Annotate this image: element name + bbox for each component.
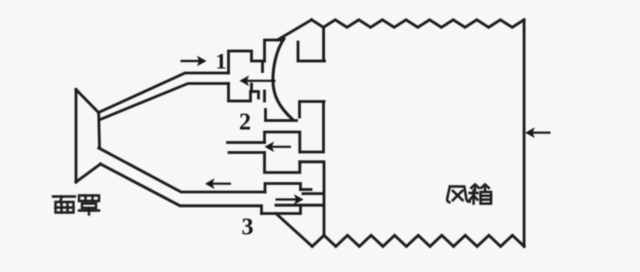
bellows zigzag bottom (312, 235, 524, 246)
fresh gas side pipe (228, 141, 265, 144)
diaphragm arc (273, 39, 292, 119)
bellows zigzag top (312, 20, 524, 28)
valve V3 body (265, 184, 301, 193)
arrow left above lower tube (205, 178, 231, 189)
arrow left inside valve 2 (265, 142, 292, 153)
wire lower tube bottom edge (101, 164, 262, 214)
channel to bellows (300, 162, 324, 236)
bellows top port (298, 42, 325, 61)
罩 (79, 196, 99, 202)
valve V2 body (265, 132, 300, 152)
channel line A with hook (266, 110, 297, 121)
label 面罩 (drawn strokes) (53, 196, 99, 215)
wire lower tube top edge (99, 148, 265, 192)
wire upper tube bottom edge (100, 84, 229, 120)
箱 (471, 184, 479, 187)
svg-text:1: 1 (216, 49, 227, 74)
dome wall lower stub (263, 91, 266, 101)
wire upper tube top edge (99, 73, 229, 113)
roof diagonal top (278, 20, 312, 40)
dome chamber left wall and top arm (265, 40, 282, 61)
valve V1 body (229, 51, 265, 73)
arrow left inside valve 1 (240, 76, 276, 87)
mask 面罩 outline (75, 90, 78, 183)
svg-text:3: 3 (242, 215, 254, 241)
valve V3 seat lines (301, 188, 312, 191)
风 (447, 187, 450, 203)
label 风箱 (drawn strokes) (447, 184, 491, 203)
arrow right inside valve 3 (276, 194, 304, 205)
roof diagonal bottom (276, 214, 312, 247)
svg-text:2: 2 (239, 110, 251, 136)
arrow left into bellows right wall (525, 127, 550, 138)
bellows right wall (523, 20, 526, 247)
vertical passage (300, 102, 325, 118)
port shelf (303, 192, 323, 195)
arrow into valve 1 (flow right) (181, 56, 207, 67)
面 (53, 195, 75, 197)
